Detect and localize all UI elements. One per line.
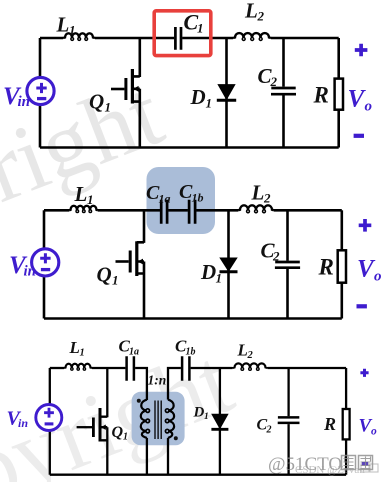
resistor R (circuit 3) body (343, 409, 350, 439)
source Vin (circuit 2): circle (32, 249, 59, 276)
svg-text:2: 2 (270, 74, 278, 89)
resistor R (circuit 2) body (338, 250, 346, 282)
svg-text:1a: 1a (129, 347, 139, 358)
wire: circuit2 top rail from C1b to L2 (196, 209, 238, 212)
wire: circuit3 C2 branch upper (287, 368, 289, 416)
transistor Q1 (circuit 1): source stubs and lead (132, 89, 139, 148)
output minus sign (circuit 1) (354, 134, 364, 138)
wire: circuit3 D1 branch (219, 368, 221, 475)
wire: circuit1 top rail from left corner to L1 (40, 37, 63, 40)
source Vin (circuit 3): plus sign (44, 408, 54, 418)
wire: circuit3 load branch lower (345, 439, 347, 474)
wire: circuit2 top rail from left corner to L1 (44, 209, 69, 212)
transistor Q1 (circuit 2): gate lead (116, 260, 129, 263)
watermark @51CTO text (268, 454, 373, 475)
svg-text:L: L (74, 182, 88, 206)
transistor Q1 (circuit 1): gate bar (124, 78, 127, 100)
wire: circuit1 C2 branch upper (282, 38, 285, 87)
wire: circuit3 transformer primary bottom lead (146, 438, 148, 475)
svg-text:2: 2 (247, 350, 254, 361)
wire: circuit2 D1 branch (227, 210, 230, 318)
wire: circuit1 bottom rail (40, 146, 339, 149)
inductor L1 (circuit 3) (64, 364, 92, 368)
highlight box around transformer (circuit 3) (132, 392, 185, 446)
svg-text:in: in (24, 264, 37, 280)
svg-text:o: o (371, 426, 377, 438)
svg-text:R: R (318, 255, 334, 280)
wire: circuit3 load branch upper (345, 368, 347, 409)
output minus sign (circuit 2) (357, 304, 367, 308)
svg-text:L: L (237, 341, 248, 360)
capacitor C2 (circuit 2) plates (275, 262, 300, 268)
wire: circuit2 top rail from L2 to right corner (274, 209, 342, 212)
svg-text:L: L (56, 13, 70, 37)
diode D1 (circuit 3): cathode bar (211, 428, 228, 431)
wire: circuit2 between C1a and C1b (168, 209, 188, 212)
svg-text:Q: Q (89, 90, 104, 114)
source Vin (circuit 1): circle (27, 77, 54, 104)
wire: circuit3 top rail from L1 to C1a (92, 367, 125, 369)
svg-text:1: 1 (206, 96, 213, 111)
wire: circuit2 C2 branch upper (286, 210, 289, 260)
transistor Q1 (circuit 3): arrow (101, 425, 106, 430)
transistor Q1 (circuit 3): gate bar (92, 418, 95, 438)
wire: circuit3 transformer secondary bottom lead (167, 438, 169, 475)
svg-text:L: L (251, 181, 265, 205)
transistor Q1 (circuit 2): arrow (138, 259, 143, 265)
wire: circuit3 left rail (49, 368, 51, 475)
transistor Q1 (circuit 2): source stubs and lead (137, 262, 144, 319)
svg-text:R: R (323, 414, 336, 434)
wire: circuit1 C2 branch lower (282, 96, 285, 148)
resistor R (circuit 1) body (335, 79, 343, 110)
transistor Q1 (circuit 1): arrow (133, 86, 138, 92)
diode D1 (circuit 3): triangle (212, 414, 228, 428)
svg-text:o: o (374, 269, 382, 285)
svg-text:1: 1 (204, 412, 209, 422)
svg-text:in: in (18, 94, 31, 110)
wire: circuit1 load branch upper (337, 38, 340, 79)
wire: circuit2 left rail (43, 210, 46, 318)
wire: circuit1 top rail from L2 to right corner (271, 37, 339, 40)
svg-text:1: 1 (87, 192, 94, 207)
output plus sign (circuit 1) (355, 44, 368, 57)
wire: circuit1 left rail (39, 38, 42, 148)
output plus sign (circuit 3) (360, 369, 368, 377)
wire: circuit1 load branch lower (337, 110, 340, 148)
svg-text:in: in (18, 416, 28, 430)
transistor Q1 (circuit 2): channel bar (135, 241, 138, 276)
transistor Q1 (circuit 3): channel bar (99, 408, 102, 442)
transistor Q1 (circuit 1): gate lead (111, 88, 124, 91)
svg-text:Q: Q (97, 263, 112, 287)
capacitor C2 (circuit 1) plates (271, 88, 296, 94)
transformer primary polarity dot (circuit 3) (137, 399, 141, 403)
capacitor C1a (circuit 3) plates (127, 356, 134, 380)
source Vin (circuit 1): plus sign (36, 83, 46, 93)
svg-text:2: 2 (272, 249, 280, 264)
capacitor C2 (circuit 3) plates (278, 417, 300, 423)
wire: circuit1 top rail from C1 to L2 (182, 37, 233, 40)
capacitor C1b (circuit 3) plates (182, 356, 189, 380)
wire: circuit3 C2 branch lower (287, 424, 289, 475)
transistor Q1 (circuit 3): drain lead (100, 368, 107, 417)
svg-text:1: 1 (197, 21, 204, 36)
diode D1 (circuit 1): cathode bar (217, 99, 236, 102)
output minus sign (circuit 3) (362, 462, 368, 466)
svg-text:2: 2 (263, 191, 271, 206)
svg-text:L: L (244, 0, 258, 23)
svg-text:Q: Q (112, 424, 124, 441)
transformer primary winding (circuit 3) (141, 400, 147, 438)
transistor Q1 (circuit 2): gate bar (129, 251, 132, 273)
svg-text:1: 1 (105, 100, 112, 115)
source Vin (circuit 3): minus sign (45, 422, 54, 425)
svg-text:1b: 1b (186, 347, 196, 358)
transistor Q1 (circuit 3): gate lead (77, 426, 92, 428)
transistor Q1 (circuit 2): drain lead (137, 210, 144, 243)
wire: circuit3 from C1a to transformer primary corner (135, 368, 147, 400)
source Vin (circuit 2): minus sign (41, 268, 50, 271)
svg-text:1:n: 1:n (148, 373, 167, 388)
capacitor C1 (circuit 1) plates (175, 27, 181, 50)
svg-text:R: R (313, 83, 329, 108)
wire: circuit3 top rail from L2 to right corner (268, 367, 347, 369)
svg-text:CSDN @Zevan: CSDN @Zevan (295, 464, 365, 476)
wire: circuit3 bottom rail (50, 474, 346, 476)
capacitor C1b (circuit 2) plates (189, 200, 195, 224)
inductor L2 (circuit 2) (238, 205, 274, 210)
svg-text:1: 1 (123, 432, 128, 443)
source Vin (circuit 1): minus sign (37, 97, 46, 100)
transistor Q1 (circuit 1): channel bar (131, 69, 134, 104)
transformer secondary winding (circuit 3) (168, 400, 174, 438)
capacitor C1a (circuit 2) plates (161, 200, 167, 224)
transformer core lines (circuit 3) (155, 401, 161, 440)
svg-text:1a: 1a (159, 192, 171, 206)
svg-text:D: D (200, 260, 216, 284)
svg-text:1b: 1b (192, 191, 204, 205)
source Vin (circuit 3): circle (36, 405, 62, 431)
transistor Q1 (circuit 3): source stubs and lead (100, 427, 107, 475)
highlight box around C1a/C1b (circuit 2) (147, 167, 216, 234)
inductor L1 (circuit 1) (63, 33, 95, 38)
wire: circuit1 top rail from L1 to C1 left plate (95, 37, 174, 40)
wire: circuit2 load branch lower (340, 283, 343, 319)
wire: circuit3 top rail from left corner to L1 (50, 367, 64, 369)
watermark CSDN small text (295, 464, 378, 476)
wire: circuit3 top rail from C1b to L2 (191, 367, 233, 369)
transformer secondary polarity dot (circuit 3) (174, 436, 178, 440)
svg-text:2: 2 (266, 425, 272, 436)
wire: circuit2 bottom rail (44, 317, 342, 320)
svg-text:1: 1 (216, 271, 223, 286)
svg-text:1: 1 (112, 273, 119, 288)
output plus sign (circuit 2) (359, 219, 372, 232)
svg-text:L: L (69, 338, 80, 357)
wire: circuit2 top rail from L1 to C1a (98, 209, 160, 212)
wire: circuit1 D1 branch (225, 38, 228, 148)
wire: circuit2 load branch upper (340, 210, 343, 250)
inductor L1 (circuit 2) (69, 206, 98, 210)
diode D1 (circuit 2): cathode bar (220, 270, 238, 273)
svg-text:1: 1 (69, 23, 76, 38)
red highlight box around C1 (circuit 1) (154, 11, 211, 56)
inductor L2 (circuit 1) (233, 33, 271, 38)
transistor Q1 (circuit 1): drain lead (132, 38, 139, 77)
wire: circuit2 C2 branch lower (286, 269, 289, 319)
svg-text:1: 1 (80, 348, 85, 359)
svg-text:D: D (190, 85, 206, 109)
svg-text:2: 2 (257, 9, 265, 24)
source Vin (circuit 2): plus sign (40, 253, 50, 263)
wire: circuit3 transformer secondary top lead (168, 368, 181, 400)
inductor L2 (circuit 3) (233, 363, 268, 368)
diode D1 (circuit 1): triangle (218, 85, 235, 100)
diode D1 (circuit 2): triangle (220, 258, 237, 271)
svg-text:D: D (193, 405, 205, 421)
svg-text:o: o (365, 99, 373, 115)
